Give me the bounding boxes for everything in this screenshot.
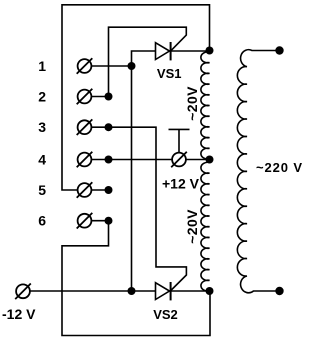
junction terminal3	[105, 123, 113, 131]
wire vertical -12V bus to VS1 anode	[132, 51, 156, 291]
junction primary top	[206, 47, 214, 55]
junction terminal2/gate	[105, 93, 113, 101]
wire terminal1 stub	[92, 65, 132, 67]
junction -12V/VS2 anode	[128, 287, 136, 295]
terminal pin 1	[77, 58, 93, 74]
wire terminal5 stub right	[92, 189, 109, 191]
transformer primary upper winding ~20V	[201, 52, 210, 159]
terminal -12V	[15, 284, 31, 300]
terminal pin 5	[77, 182, 93, 198]
svg-text:+12 V: +12 V	[162, 176, 200, 192]
junction terminal5	[105, 186, 113, 194]
junction primary center tap	[206, 156, 214, 164]
wire -12V rail to VS2 anode	[30, 290, 156, 292]
svg-text:4: 4	[38, 152, 46, 168]
wire VS2 cathode to primary bottom	[171, 290, 210, 292]
svg-text:~20V: ~20V	[184, 209, 200, 244]
wire terminal3 to VS2 gate	[92, 127, 187, 290]
terminal +12V	[171, 152, 187, 168]
svg-text:2: 2	[38, 89, 46, 105]
thyristor VS2	[156, 282, 171, 300]
wire terminal4 to +12V terminal	[92, 159, 172, 161]
junction terminal4	[105, 156, 113, 164]
junction terminal1/-12V bus	[128, 62, 136, 70]
svg-text:1: 1	[38, 58, 46, 74]
svg-text:-12 V: -12 V	[2, 306, 36, 322]
wire terminal2 to VS1 gate	[92, 27, 187, 96]
wire +12V terminal to center tap	[186, 159, 209, 161]
terminal pin 6	[77, 213, 93, 229]
node secondary bottom output	[275, 287, 283, 295]
wire terminal6 to primary bottom (bottom loop)	[62, 221, 210, 336]
terminal pin 3	[77, 119, 93, 135]
terminal pin 4	[77, 152, 93, 168]
svg-text:VS2: VS2	[153, 307, 178, 322]
antenna T-bar above +12V terminal	[169, 129, 190, 152]
thyristor VS1	[156, 42, 171, 60]
svg-text:6: 6	[38, 213, 46, 229]
terminal pin 2	[77, 89, 93, 105]
transformer secondary winding ~220V with leads	[237, 50, 279, 293]
junction terminal6	[105, 217, 113, 225]
svg-text:~20V: ~20V	[184, 86, 200, 121]
transformer primary lower winding ~20V	[201, 162, 210, 291]
wire terminal5 to transformer top (left loop)	[62, 5, 210, 190]
svg-text:3: 3	[38, 119, 46, 135]
svg-text:~220 V: ~220 V	[256, 160, 303, 175]
junction primary bottom	[206, 287, 214, 295]
wire VS1 cathode to primary top	[171, 50, 210, 52]
node secondary top output	[275, 46, 283, 54]
svg-text:5: 5	[38, 182, 46, 198]
svg-text:VS1: VS1	[157, 66, 182, 81]
